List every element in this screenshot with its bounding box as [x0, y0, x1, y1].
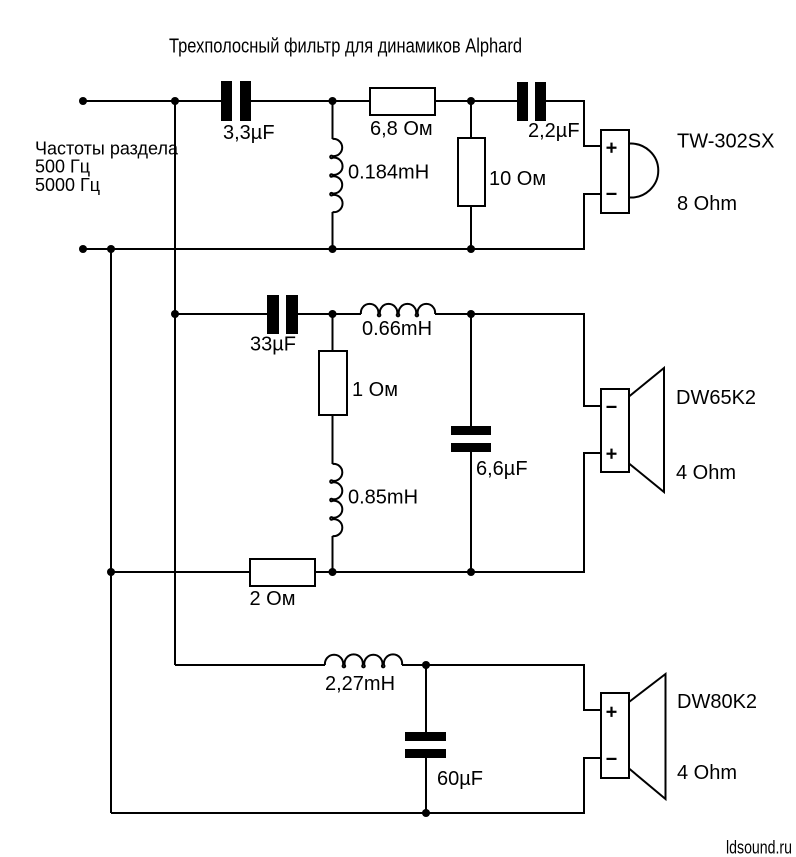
wire cap C4 to mid minus rail — [470, 452, 472, 572]
wire node D to cap C4 — [470, 314, 472, 426]
speaker U2 DW65K2 body — [601, 389, 629, 472]
wire mid positive rail y=314 — [175, 313, 267, 315]
svg-text:8 Ohm: 8 Ohm — [677, 193, 737, 215]
svg-text:6,6µF: 6,6µF — [476, 458, 528, 480]
wire left rail x=111 — [110, 249, 112, 813]
node bottom of C4 — [467, 568, 475, 576]
wire midrange plus return — [315, 453, 601, 572]
resistor R2 10 Om — [458, 138, 485, 206]
wire inductor L2 to midrange minus — [435, 314, 601, 406]
wire tweeter minus return — [83, 194, 601, 249]
wire resistor R3 to inductor L3 — [332, 415, 334, 464]
svg-text:ldsound.ru: ldsound.ru — [726, 838, 792, 857]
svg-text:2 Ом: 2 Ом — [250, 588, 296, 610]
node junction x111 minus rail — [107, 245, 115, 253]
svg-text:2,27mH: 2,27mH — [325, 673, 395, 695]
wire node B to resistor R2 top — [470, 101, 472, 138]
node E top of C5 — [422, 661, 430, 669]
svg-text:TW-302SX: TW-302SX — [677, 131, 774, 153]
capacitor C3 33uF plates — [267, 295, 279, 334]
woofer plus sign — [607, 711, 617, 713]
speaker U3 cone — [629, 674, 666, 799]
svg-text:DW65K2: DW65K2 — [676, 387, 756, 409]
svg-text:500 Гц: 500 Гц — [35, 157, 90, 177]
svg-text:4 Ohm: 4 Ohm — [677, 762, 737, 784]
speaker U1 dome — [629, 144, 658, 198]
speaker U2 cone — [629, 368, 664, 492]
svg-text:6,8 Ом: 6,8 Ом — [370, 118, 433, 140]
node junction x175 top — [171, 97, 179, 105]
wire cap C3 to node C — [297, 313, 361, 315]
svg-text:2,2µF: 2,2µF — [528, 120, 580, 142]
wire mid rail x=175 — [174, 101, 176, 665]
capacitor C4 6,6uF plates — [451, 426, 491, 435]
wire top positive rail y=101 — [83, 100, 221, 102]
svg-text:0.66mH: 0.66mH — [362, 318, 432, 340]
node junction x175 mid — [171, 310, 179, 318]
wire low positive rail y=665 — [175, 664, 325, 666]
resistor R3 1 Om — [319, 351, 347, 415]
node B top of R2 — [467, 97, 475, 105]
node A top of L1 — [329, 97, 337, 105]
node bottom of R2 — [467, 245, 475, 253]
tweeter plus sign — [607, 147, 617, 149]
svg-text:4 Ohm: 4 Ohm — [676, 462, 736, 484]
node bottom of L3 — [329, 568, 337, 576]
woofer minus sign — [607, 758, 617, 760]
svg-text:33µF: 33µF — [250, 334, 296, 356]
capacitor C1 3,3uF plates — [221, 81, 232, 121]
wire inductor L3 to mid minus rail — [332, 536, 334, 572]
wire inductor L1 bottom to minus rail — [332, 212, 334, 249]
wire resistor R2 bottom to minus rail — [470, 206, 472, 249]
node C top of R3 — [329, 310, 337, 318]
midrange plus sign — [607, 453, 617, 455]
svg-text:DW80K2: DW80K2 — [677, 691, 757, 713]
resistor R1 6,8 Om — [370, 88, 435, 115]
svg-text:3,3µF: 3,3µF — [223, 122, 275, 144]
node bottom of L1 — [329, 245, 337, 253]
inductor L1 0.184mH — [330, 139, 342, 212]
node x111 mid return — [107, 568, 115, 576]
wire resistor R1 to cap C2 — [435, 100, 517, 102]
node input plus terminal — [79, 97, 87, 105]
wire mid minus rail left of resistor R4 — [111, 571, 250, 573]
wire cap C1 to resistor R1 — [251, 100, 370, 102]
inductor L3 0.85mH — [330, 464, 342, 536]
wire inductor L4 to woofer plus — [402, 665, 601, 710]
wire cap C5 to bottom rail — [425, 758, 427, 813]
wire node C to resistor R3 — [332, 314, 334, 351]
inductor L4 2,27mH — [325, 654, 402, 667]
svg-text:1 Ом: 1 Ом — [352, 379, 398, 401]
wire node E to cap C5 — [425, 665, 427, 732]
inductor L2 0.66mH — [361, 304, 435, 316]
tweeter minus sign — [607, 193, 617, 195]
speaker U1 TW-302SX body — [601, 130, 629, 213]
svg-text:Частоты раздела: Частоты раздела — [35, 139, 179, 159]
node bottom of C5 — [422, 809, 430, 817]
wire woofer minus return — [111, 758, 601, 813]
midrange minus sign — [607, 406, 617, 408]
resistor R4 2 Om — [250, 559, 315, 586]
svg-text:10 Ом: 10 Ом — [489, 168, 546, 190]
node input minus terminal — [79, 245, 87, 253]
svg-text:0.85mH: 0.85mH — [348, 487, 418, 509]
capacitor C5 60uF plates — [405, 732, 446, 741]
svg-text:60µF: 60µF — [437, 768, 483, 790]
speaker U3 DW80K2 body — [601, 693, 629, 778]
wire node A to inductor L1 top — [332, 101, 334, 139]
node D top of C4 — [467, 310, 475, 318]
svg-text:5000 Гц: 5000 Гц — [35, 175, 100, 195]
capacitor C2 2,2uF plates — [517, 82, 528, 121]
svg-text:0.184mH: 0.184mH — [348, 162, 429, 184]
wire cap C2 to tweeter plus — [546, 101, 601, 146]
svg-text:Трехполосный фильтр для динами: Трехполосный фильтр для динамиков Alphar… — [169, 36, 522, 58]
